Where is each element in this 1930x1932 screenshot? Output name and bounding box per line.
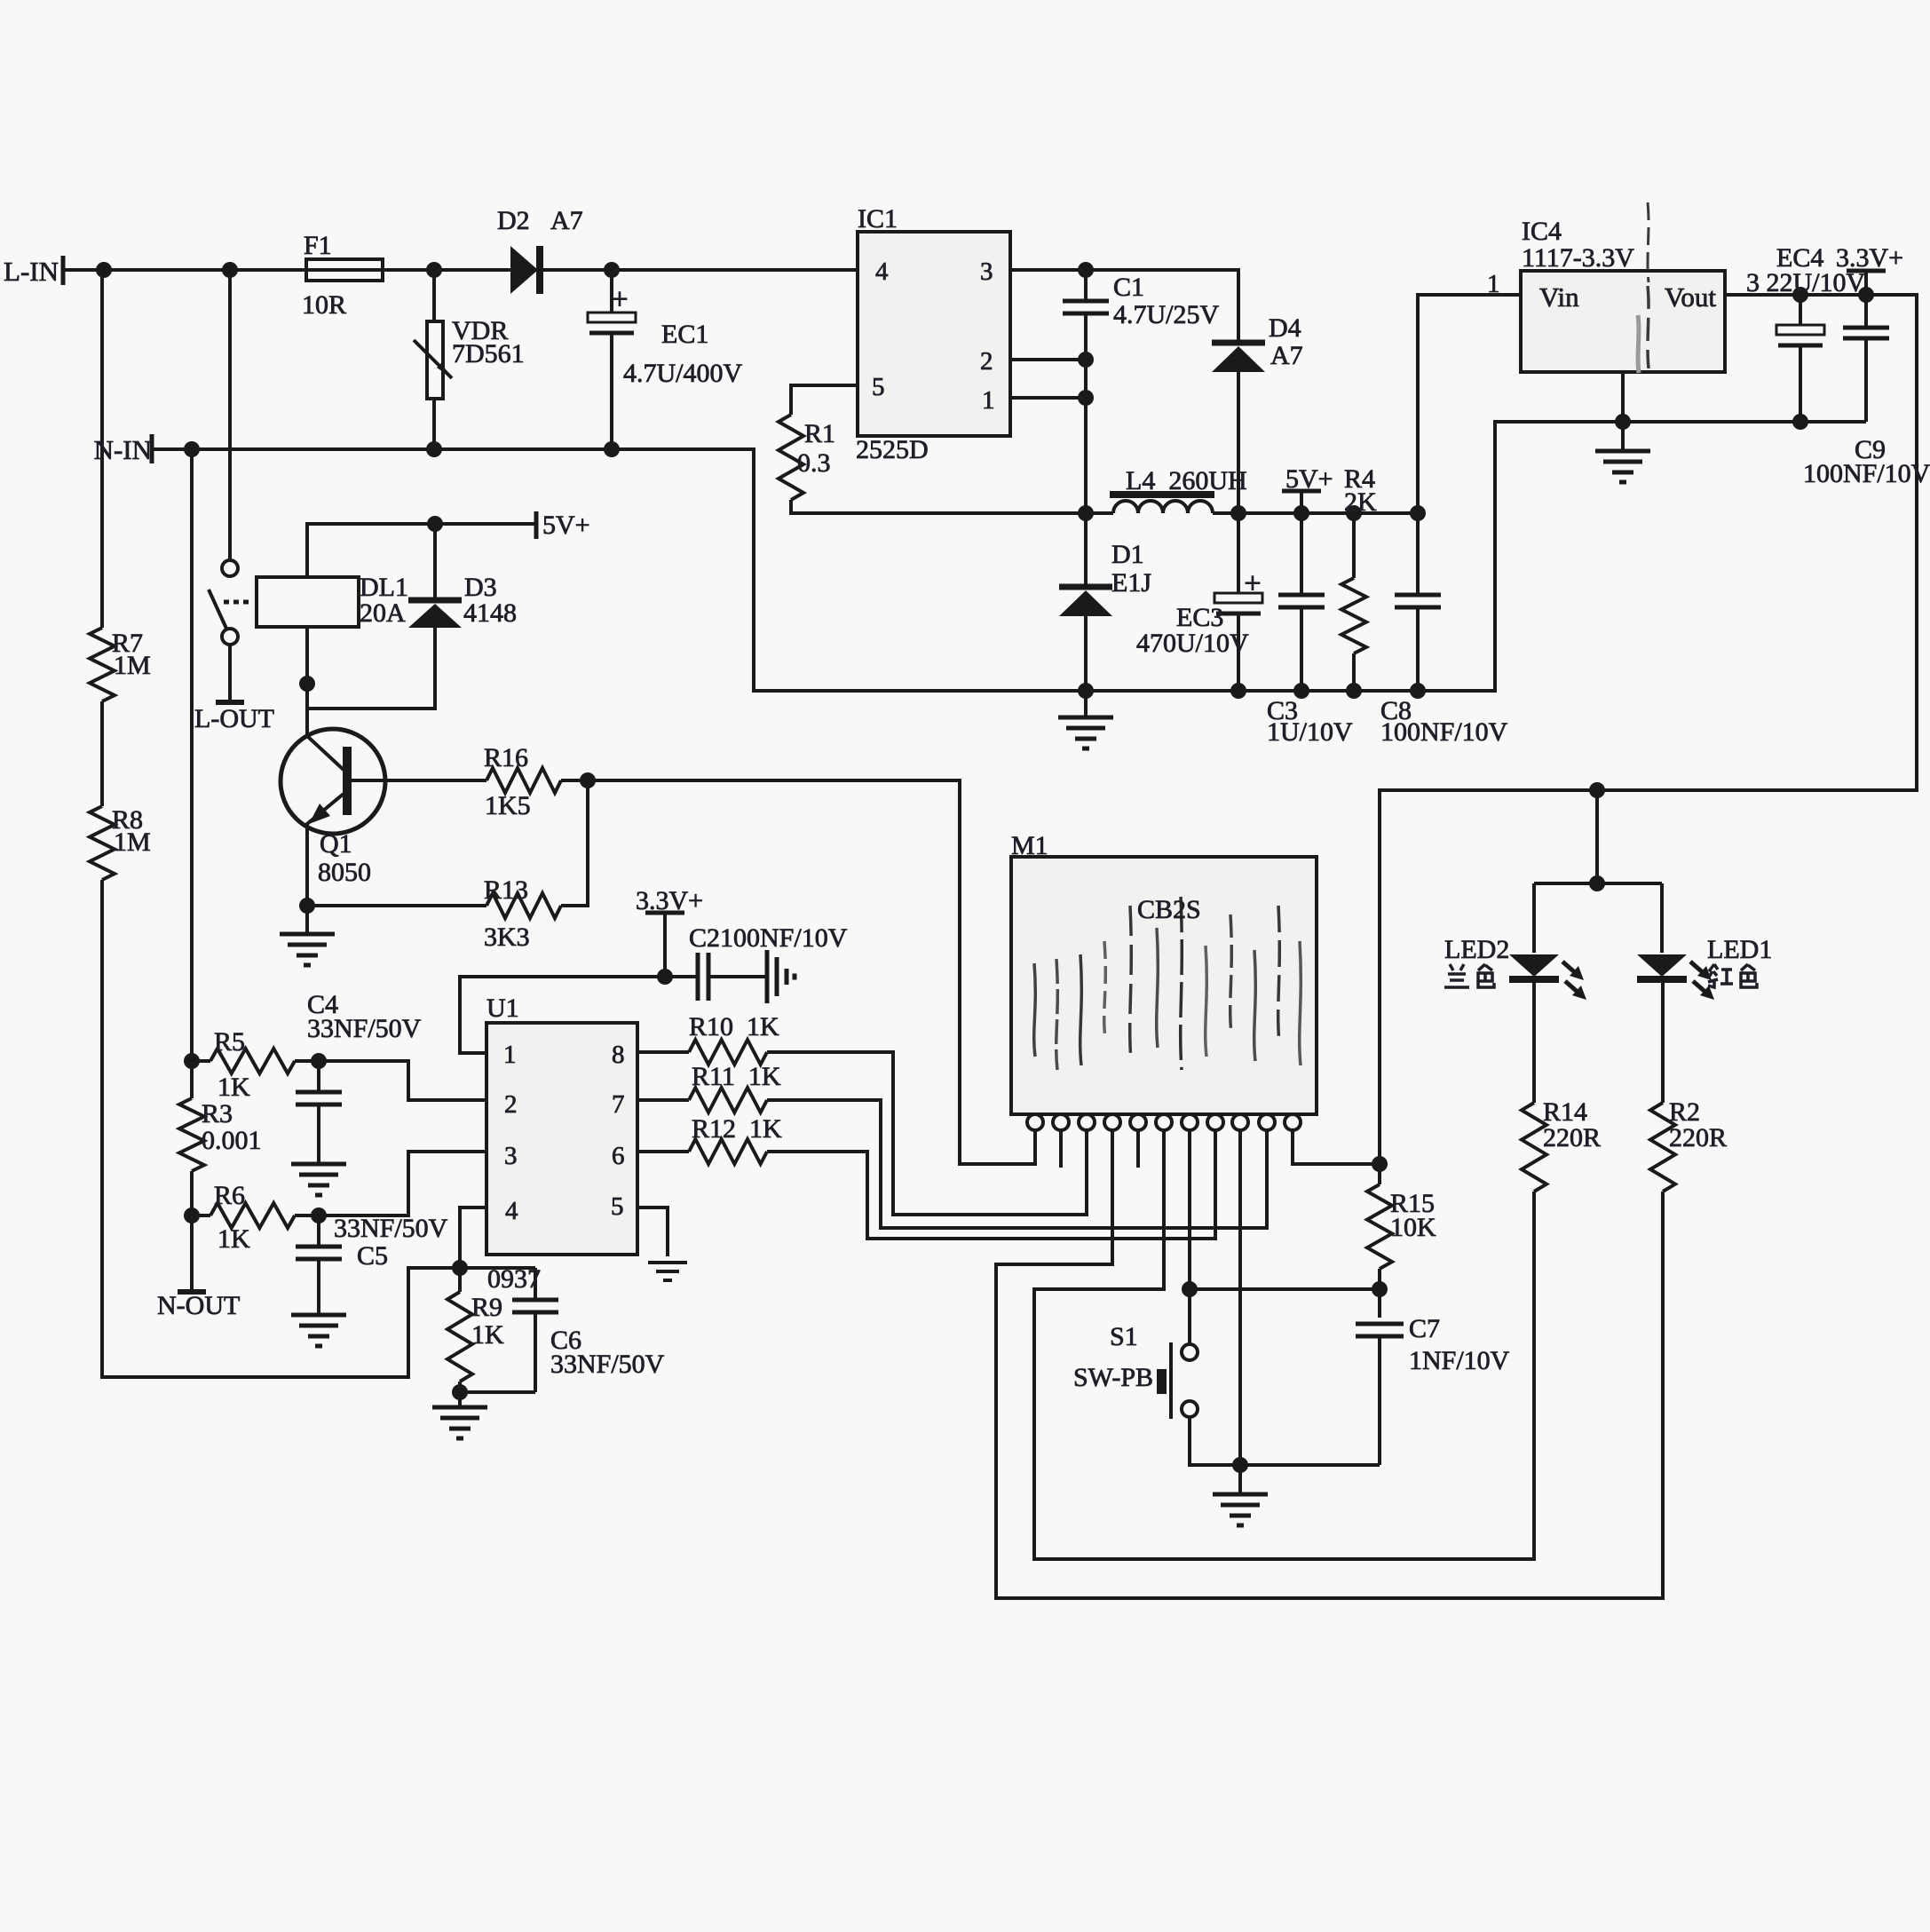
- svg-text:R10 1K: R10 1K: [689, 1012, 779, 1041]
- svg-text:A7: A7: [1270, 341, 1303, 370]
- svg-text:D1: D1: [1111, 540, 1144, 569]
- svg-text:R9: R9: [471, 1293, 502, 1322]
- svg-text:3: 3: [980, 257, 993, 286]
- svg-text:IC1: IC1: [858, 204, 898, 234]
- svg-text:5V+: 5V+: [542, 511, 590, 540]
- svg-text:C2100NF/10V: C2100NF/10V: [689, 923, 848, 953]
- svg-text:IC4: IC4: [1522, 217, 1562, 246]
- svg-text:2K: 2K: [1344, 487, 1377, 517]
- svg-text:2525D: 2525D: [856, 435, 929, 464]
- svg-text:L-IN: L-IN: [4, 256, 59, 287]
- svg-text:S1: S1: [1110, 1322, 1138, 1351]
- svg-text:R5: R5: [214, 1027, 245, 1057]
- svg-text:8: 8: [612, 1041, 625, 1069]
- svg-text:CB2S: CB2S: [1137, 895, 1201, 924]
- svg-text:1: 1: [1487, 270, 1500, 298]
- svg-text:100NF/10V: 100NF/10V: [1380, 717, 1508, 747]
- svg-text:Q1: Q1: [320, 829, 352, 859]
- svg-text:C1: C1: [1113, 273, 1144, 302]
- svg-text:3: 3: [504, 1142, 518, 1170]
- svg-text:0.001: 0.001: [202, 1126, 262, 1155]
- svg-text:1: 1: [503, 1041, 517, 1069]
- svg-text:10R: 10R: [302, 290, 346, 320]
- svg-text:220R: 220R: [1543, 1123, 1601, 1152]
- svg-text:7D561: 7D561: [452, 339, 525, 368]
- svg-text:33NF/50V: 33NF/50V: [550, 1350, 665, 1379]
- svg-text:C7: C7: [1409, 1314, 1440, 1343]
- svg-text:Vin: Vin: [1539, 281, 1579, 313]
- svg-text:3.3V+: 3.3V+: [636, 886, 703, 915]
- svg-text:R6: R6: [214, 1181, 245, 1210]
- svg-text:20A: 20A: [360, 598, 406, 628]
- svg-text:4: 4: [505, 1197, 518, 1225]
- svg-text:0.3: 0.3: [797, 448, 831, 478]
- svg-text:1K: 1K: [471, 1320, 504, 1350]
- svg-text:2: 2: [504, 1090, 518, 1119]
- svg-text:R13: R13: [484, 875, 528, 905]
- svg-text:5: 5: [611, 1192, 624, 1221]
- svg-text:100NF/10V: 100NF/10V: [1803, 459, 1930, 488]
- svg-text:N-OUT: N-OUT: [157, 1291, 240, 1320]
- svg-text:R16: R16: [484, 743, 528, 772]
- svg-text:470U/10V: 470U/10V: [1136, 629, 1249, 658]
- svg-text:C5: C5: [357, 1241, 388, 1271]
- svg-text:1: 1: [982, 386, 995, 415]
- svg-text:R3: R3: [202, 1099, 233, 1128]
- svg-text:U1: U1: [486, 994, 519, 1023]
- svg-text:4.7U/400V: 4.7U/400V: [623, 359, 743, 388]
- svg-text:1M: 1M: [114, 651, 151, 680]
- svg-text:3K3: 3K3: [484, 922, 530, 952]
- svg-text:R1: R1: [804, 419, 835, 448]
- svg-text:8050: 8050: [318, 858, 371, 887]
- svg-text:E1J: E1J: [1111, 568, 1151, 598]
- svg-text:0937: 0937: [487, 1264, 541, 1294]
- svg-text:L4 260UH: L4 260UH: [1126, 466, 1247, 495]
- svg-text:LED2: LED2: [1444, 935, 1509, 964]
- svg-text:1M: 1M: [114, 827, 151, 857]
- svg-text:D4: D4: [1269, 313, 1301, 343]
- svg-text:+: +: [1244, 567, 1261, 600]
- svg-text:SW-PB: SW-PB: [1073, 1363, 1153, 1392]
- svg-text:1K5: 1K5: [485, 791, 531, 820]
- svg-text:4.7U/25V: 4.7U/25V: [1113, 300, 1220, 329]
- svg-text:R12 1K: R12 1K: [692, 1114, 782, 1144]
- svg-text:5V+: 5V+: [1285, 464, 1333, 494]
- svg-text:1K: 1K: [218, 1224, 250, 1254]
- svg-text:1117-3.3V: 1117-3.3V: [1522, 243, 1634, 273]
- svg-text:1K: 1K: [218, 1073, 250, 1102]
- svg-text:5: 5: [872, 373, 885, 401]
- svg-text:F1: F1: [304, 231, 332, 260]
- svg-text:R11 1K: R11 1K: [692, 1062, 781, 1091]
- svg-text:D2: D2: [497, 206, 530, 235]
- svg-text:220R: 220R: [1669, 1123, 1727, 1152]
- svg-text:10K: 10K: [1390, 1213, 1436, 1242]
- svg-text:1U/10V: 1U/10V: [1267, 717, 1353, 747]
- svg-text:1NF/10V: 1NF/10V: [1409, 1346, 1510, 1375]
- svg-text:Vout: Vout: [1665, 281, 1716, 313]
- svg-text:L-OUT: L-OUT: [194, 704, 274, 733]
- svg-text:+: +: [611, 283, 628, 316]
- svg-text:LED1: LED1: [1707, 935, 1772, 964]
- svg-text:N-IN: N-IN: [94, 434, 152, 465]
- svg-text:3 22U/10V: 3 22U/10V: [1746, 268, 1866, 297]
- svg-text:4: 4: [875, 257, 889, 286]
- svg-text:33NF/50V: 33NF/50V: [334, 1214, 448, 1243]
- svg-text:EC1: EC1: [661, 320, 708, 349]
- svg-text:2: 2: [980, 347, 993, 376]
- svg-text:4148: 4148: [463, 598, 517, 628]
- svg-text:M1: M1: [1011, 831, 1048, 860]
- svg-text:A7: A7: [550, 206, 583, 235]
- svg-text:33NF/50V: 33NF/50V: [307, 1014, 422, 1043]
- svg-text:7: 7: [612, 1090, 625, 1119]
- svg-text:6: 6: [612, 1142, 625, 1170]
